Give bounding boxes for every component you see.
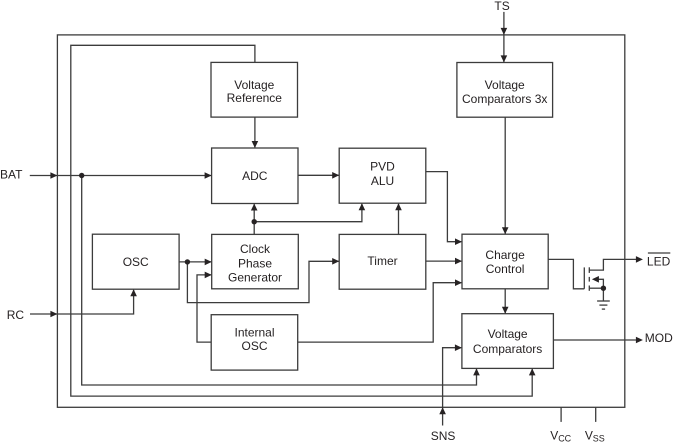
wire Internal OSC to Charge Control: [298, 283, 462, 342]
ground bar 2: [599, 304, 607, 306]
svg-text:MOD: MOD: [645, 331, 673, 345]
svg-text:RC: RC: [7, 308, 25, 322]
svg-text:Voltage: Voltage: [485, 78, 525, 92]
ground stem: [602, 288, 604, 301]
ground bar 1: [597, 300, 610, 302]
junction clock node: [252, 219, 257, 224]
svg-text:Phase: Phase: [238, 257, 272, 271]
svg-text:SS: SS: [593, 434, 605, 442]
svg-text:SNS: SNS: [431, 429, 456, 442]
arrow BAT at boundary: [50, 172, 57, 179]
pin stub VSS: [595, 407, 597, 422]
transistor Q1 channel segment drain: [588, 267, 590, 273]
transistor Q1 channel segment body: [588, 277, 590, 282]
wire Timer to PVD ALU: [398, 204, 400, 235]
wire Voltage Comparators to MOD pin: [553, 339, 636, 341]
arrow TS into Voltage Comparators 3x: [501, 55, 508, 62]
arrow Timer into Charge Control left: [455, 258, 462, 265]
arrow clock into ADC bottom: [251, 204, 258, 211]
svg-text:OSC: OSC: [241, 339, 267, 353]
svg-text:CC: CC: [558, 434, 571, 442]
wire clock node to PVD ALU: [254, 204, 362, 222]
svg-text:Timer: Timer: [367, 254, 397, 268]
arrow Internal OSC into Charge Control left: [455, 279, 462, 286]
wire Clock Phase Generator to ADC: [253, 204, 255, 234]
arrow to LED pin: [636, 256, 643, 263]
block: OSC: [92, 234, 179, 289]
wire Voltage Reference feed loop to Voltage Comparators: [71, 45, 532, 396]
wire PVD ALU to Charge Control: [426, 172, 462, 242]
svg-text:V: V: [585, 429, 593, 442]
wire Charge Control to Voltage Comparators: [504, 289, 506, 313]
wire Q1 drain to LED pin: [589, 259, 636, 270]
svg-text:V: V: [550, 429, 558, 442]
svg-text:Comparators 3x: Comparators 3x: [462, 92, 547, 106]
block: Voltage Comparators: [462, 314, 554, 369]
svg-text:Reference: Reference: [227, 91, 283, 105]
wire BAT to ADC: [30, 175, 211, 177]
svg-text:PVD: PVD: [370, 159, 395, 173]
transistor Q1 gate bar: [583, 267, 585, 288]
chip boundary: [57, 35, 624, 407]
junction Q1 source node: [601, 286, 606, 291]
arrow Internal OSC into Clock Phase Generator left: [205, 272, 212, 279]
transistor Q1 channel segment source: [588, 286, 590, 291]
arrow OSC node into Timer left: [332, 258, 339, 265]
arrow TS at boundary: [501, 28, 508, 35]
arrow Q1 body (points left): [592, 276, 599, 283]
block: PVD ALU: [339, 148, 426, 203]
arrow SNS at boundary: [439, 407, 446, 414]
arrow PVD ALU into Charge Control left: [455, 238, 462, 245]
wire Internal OSC to Clock Phase Generator: [197, 275, 211, 342]
wire TS input: [503, 12, 505, 62]
svg-text:Charge: Charge: [485, 248, 525, 262]
block: Clock Phase Generator: [212, 234, 299, 288]
wire OSC node to Timer: [187, 261, 338, 302]
wire Q1 body tie: [598, 279, 604, 288]
pin stub VCC: [560, 407, 562, 422]
svg-text:Voltage: Voltage: [488, 327, 528, 341]
block: Voltage Comparators 3x: [457, 63, 553, 118]
arrow clock node into PVD ALU bottom: [359, 203, 366, 210]
svg-text:Clock: Clock: [240, 242, 271, 256]
arrow into ADC top: [252, 141, 259, 148]
arrow RC into OSC bottom: [130, 289, 137, 296]
wire Q1 source: [589, 287, 603, 289]
svg-text:BAT: BAT: [0, 168, 23, 182]
arrow SNS into Voltage Comparators left: [455, 344, 462, 351]
block: Voltage Reference: [211, 62, 298, 117]
svg-text:LED: LED: [647, 254, 671, 268]
wire RC to OSC: [30, 290, 134, 314]
arrow into Voltage Comparators top: [502, 307, 509, 314]
arrow Timer into PVD ALU bottom: [395, 203, 402, 210]
svg-text:ALU: ALU: [371, 174, 394, 188]
wire ADC to PVD ALU: [298, 174, 339, 176]
wire Charge Control to MOSFET gate: [548, 259, 584, 288]
svg-text:TS: TS: [494, 0, 509, 13]
arrow to MOD pin: [636, 337, 643, 344]
svg-text:Internal: Internal: [234, 326, 274, 340]
svg-text:Voltage: Voltage: [234, 78, 274, 92]
wire Voltage Reference to ADC: [254, 117, 256, 147]
junction BAT node: [79, 173, 84, 178]
ground bar 3: [602, 308, 605, 310]
wire SNS to Voltage Comparators: [443, 348, 462, 426]
block: Timer: [339, 234, 426, 289]
junction OSC node: [185, 259, 190, 264]
svg-text:Control: Control: [486, 262, 525, 276]
wire OSC to Clock Phase Generator: [179, 261, 211, 263]
svg-text:ADC: ADC: [242, 169, 268, 183]
block: Charge Control: [462, 234, 548, 289]
svg-text:Comparators: Comparators: [473, 342, 542, 356]
block: ADC: [212, 148, 298, 204]
wire Voltage Comparators 3x to Charge Control: [504, 117, 506, 233]
arrow RC at boundary: [50, 311, 57, 318]
arrow BAT into ADC left: [205, 172, 212, 179]
svg-text:Generator: Generator: [228, 270, 282, 284]
wire BAT feedback loop to Voltage Comparators: [82, 176, 477, 386]
arrow into Charge Control top: [502, 227, 509, 234]
svg-text:OSC: OSC: [123, 255, 149, 269]
arrow OSC into Clock Phase Generator left: [205, 259, 212, 266]
arrow ADC into PVD ALU left: [332, 172, 339, 179]
block: Internal OSC: [211, 315, 298, 370]
arrow BAT feedback into Voltage Comparators bottom: [473, 368, 480, 375]
arrow VREF loop into Voltage Comparators bottom: [529, 368, 536, 375]
LED overline: [648, 252, 670, 254]
wire Timer to Charge Control: [426, 260, 462, 262]
